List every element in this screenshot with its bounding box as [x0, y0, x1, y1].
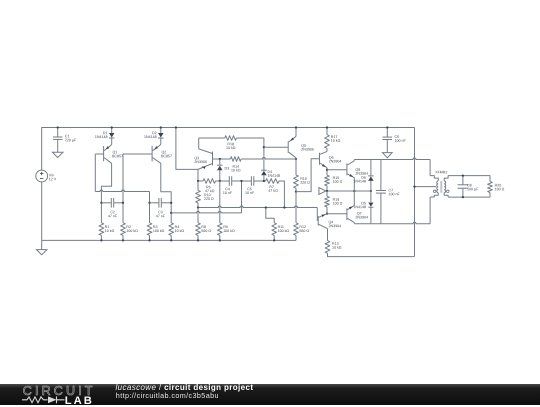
junction D3-R9-C4	[219, 180, 221, 182]
junction D4-R7	[263, 180, 265, 182]
wire R14 right (hop D4)	[241, 158, 296, 160]
junction R19-Q4E-Q7B	[326, 213, 328, 215]
wire Q2 base to R2	[122, 154, 124, 223]
wire R8 top	[197, 208, 199, 223]
capacitor C1	[53, 136, 63, 138]
transistor Q5	[287, 141, 289, 153]
wire bottom ground rail	[42, 239, 296, 241]
junction R6 left	[197, 180, 199, 182]
junction R14-Q5C	[295, 158, 297, 160]
wire to xfmr primary bottom	[429, 197, 431, 224]
wire Q8 collector to xfmr top	[354, 158, 430, 160]
wire C8 top	[462, 176, 464, 185]
wire top V+ rail	[42, 128, 415, 171]
resistor R14	[230, 157, 241, 162]
wire secondary bottom	[448, 193, 490, 198]
wire Q7 emitter up	[353, 191, 355, 206]
wire V+ drop right	[414, 128, 416, 257]
wire R18 right	[237, 137, 264, 139]
capacitor C4	[228, 176, 230, 186]
junction R10-R8-drive	[197, 206, 199, 208]
junction rail-R1	[100, 239, 102, 241]
junction C8 top	[462, 174, 464, 176]
wire D6 top	[370, 160, 372, 176]
wire Q8 emitter down	[353, 178, 355, 191]
resistor R3	[147, 223, 152, 236]
diode D5	[368, 203, 373, 207]
arrow Q6 emitter	[322, 164, 327, 168]
transformer phase dots	[433, 190, 436, 193]
wire C3 left	[150, 202, 159, 204]
resistor R12	[294, 223, 299, 236]
wire C6 bottom	[386, 140, 388, 153]
wire Q3 collector to R18	[198, 138, 200, 149]
wire Q4 to R13	[327, 229, 329, 241]
junction rail-R3	[148, 239, 150, 241]
junction R7 drop	[283, 206, 285, 208]
junction rail-R17	[326, 126, 328, 128]
wire Q6 base loop	[296, 159, 320, 192]
wire xfmr center tap	[415, 186, 437, 188]
junction R15-R19	[326, 190, 328, 192]
wire Q2 collector to R4	[161, 163, 171, 223]
wire C7 top	[380, 160, 382, 191]
junction rail-C1	[57, 126, 59, 128]
junction C3 right	[170, 202, 172, 204]
capacitor C7	[376, 190, 386, 192]
junction rail-R8	[197, 239, 199, 241]
resistor R13	[325, 241, 330, 254]
wire C2 right	[114, 202, 123, 204]
diode D3	[217, 164, 223, 166]
junction rail-D1	[111, 126, 113, 128]
junction emitters	[353, 190, 355, 192]
wire to R11	[266, 208, 274, 223]
junction diode mid	[370, 190, 372, 192]
resistor R19	[325, 196, 330, 207]
wire secondary top	[448, 176, 490, 182]
wire C8 bottom	[462, 188, 464, 197]
wire Q6 emitter to R15	[326, 168, 328, 175]
junction C3 left	[148, 202, 150, 204]
wire rail to R17	[326, 128, 328, 135]
junction D3 top	[219, 158, 221, 160]
ground C6	[383, 153, 393, 158]
wire R14 left	[220, 158, 231, 160]
wire C1 bottom	[57, 139, 59, 152]
wire C3 right	[161, 202, 171, 204]
arrow Q7 emitter	[349, 205, 354, 209]
capacitor C8	[458, 184, 469, 186]
junction C2 left	[100, 202, 102, 204]
junction C4-C5 mid	[240, 180, 242, 182]
wire diode mid	[370, 181, 372, 202]
wire D4 top	[263, 147, 265, 170]
wire C1 top	[57, 128, 59, 138]
junction rail-R2	[122, 239, 124, 241]
arrow Q2 emitter	[153, 146, 158, 150]
wire to xfmr primary top	[429, 160, 431, 176]
transformer winding leads	[430, 176, 438, 181]
wire C2 left	[101, 202, 111, 204]
capacitor C6	[383, 136, 393, 138]
capacitor C3	[158, 198, 160, 208]
diode D6	[368, 175, 374, 177]
wire D1 to Q1	[111, 138, 113, 145]
resistor R11	[272, 223, 277, 236]
wire D2 top	[160, 128, 162, 134]
wire ground stem	[41, 240, 43, 249]
transistor Q6	[319, 153, 321, 165]
resistor R18	[225, 136, 237, 141]
junction rail-R11	[273, 239, 275, 241]
junction rail-C6	[386, 126, 388, 128]
resistor R15	[325, 175, 330, 186]
resistor R1	[99, 223, 104, 236]
resistor R6	[203, 179, 216, 184]
wire rail to Q5 emitter	[295, 128, 297, 137]
wire D2 to Q2	[160, 138, 162, 145]
junction R16-R12-Q6B	[295, 190, 297, 192]
wire drive line (hops)	[198, 206, 317, 207]
wire Q1 base to C3 (hops)	[95, 190, 149, 192]
transformer XFMR2	[430, 176, 449, 197]
wire Vin to ground rail	[41, 182, 43, 241]
resistor R8	[196, 223, 201, 236]
resistor R16	[294, 175, 299, 188]
resistor R7	[266, 179, 279, 184]
transistor Q1	[103, 146, 105, 161]
wire R18 left	[199, 137, 225, 139]
arrow Q5 emitter	[290, 138, 295, 142]
arrow Q8 emitter	[349, 174, 354, 178]
junction rail-R9	[219, 239, 221, 241]
arrow Q4 emitter	[322, 213, 326, 217]
junction rail-Q5	[295, 126, 297, 128]
wire Q1 collector to R1	[101, 163, 111, 223]
transformer core	[440, 181, 442, 193]
junction Q6E-Q8B	[326, 169, 328, 171]
junction rail-Q3 feed	[175, 126, 177, 128]
wire Q7 collector to xfmr bottom	[354, 222, 430, 223]
wire up to C4/C5 junction	[241, 181, 243, 213]
node flag output	[319, 188, 326, 195]
junction R18-D4-Q5B	[263, 146, 265, 148]
junction drive-R11	[265, 206, 267, 208]
wire D3 bottom	[219, 170, 221, 181]
resistor R17	[325, 135, 330, 149]
wire D5 bottom	[370, 207, 372, 224]
arrow Q3 emitter	[201, 165, 205, 169]
junction C2 right	[122, 202, 124, 204]
wire to C3 left	[149, 192, 151, 203]
transistor Q3	[212, 152, 214, 166]
wire D4 bottom	[263, 175, 265, 181]
resistor R20	[488, 182, 493, 193]
wire R6/C4/C5/R7 line	[198, 180, 203, 182]
wire R12 top	[295, 192, 297, 223]
wire R13 to V+ column	[328, 253, 415, 256]
wire Q5 collector to R16	[295, 158, 297, 175]
junction N4 tap	[170, 212, 172, 214]
junction rail-R4	[170, 239, 172, 241]
capacitor C2	[110, 198, 112, 208]
transistor Q4	[317, 216, 319, 226]
transistor Q8	[346, 163, 348, 175]
wire drive to Q4 base	[316, 208, 318, 221]
wire Q3 emitter to R6 node	[197, 169, 199, 181]
ground	[36, 250, 47, 255]
wire N4 line (hops R8,R9)	[171, 211, 241, 213]
diode D1	[109, 133, 115, 138]
arrow Q1 emitter	[105, 146, 110, 150]
wire Q1 base down	[94, 154, 96, 192]
wire R9 top	[219, 181, 221, 223]
junction rail-D2	[160, 126, 162, 128]
wire R19 top	[326, 191, 328, 196]
resistor R4	[169, 223, 174, 236]
transistor Q7	[346, 208, 348, 220]
resistor R2	[121, 223, 126, 236]
junction C8 bottom	[462, 196, 464, 198]
resistor R9	[217, 223, 222, 236]
diode D4	[261, 169, 267, 171]
wire C7 bottom	[380, 193, 382, 224]
wire R7 to drive line	[279, 181, 285, 208]
ground C1	[52, 152, 63, 157]
wire D1 top	[111, 128, 113, 134]
diode D2	[158, 133, 164, 138]
wire D3 top	[219, 159, 221, 165]
junction center tap	[413, 185, 415, 187]
wire C6 top	[386, 128, 388, 138]
capacitor C5	[250, 176, 252, 186]
transistor Q2	[151, 146, 153, 161]
wire rail to Q3 emitter	[176, 128, 198, 170]
wire common emitter node	[327, 190, 371, 192]
resistor R10	[196, 190, 201, 203]
voltage source V1 Vin	[36, 170, 48, 182]
